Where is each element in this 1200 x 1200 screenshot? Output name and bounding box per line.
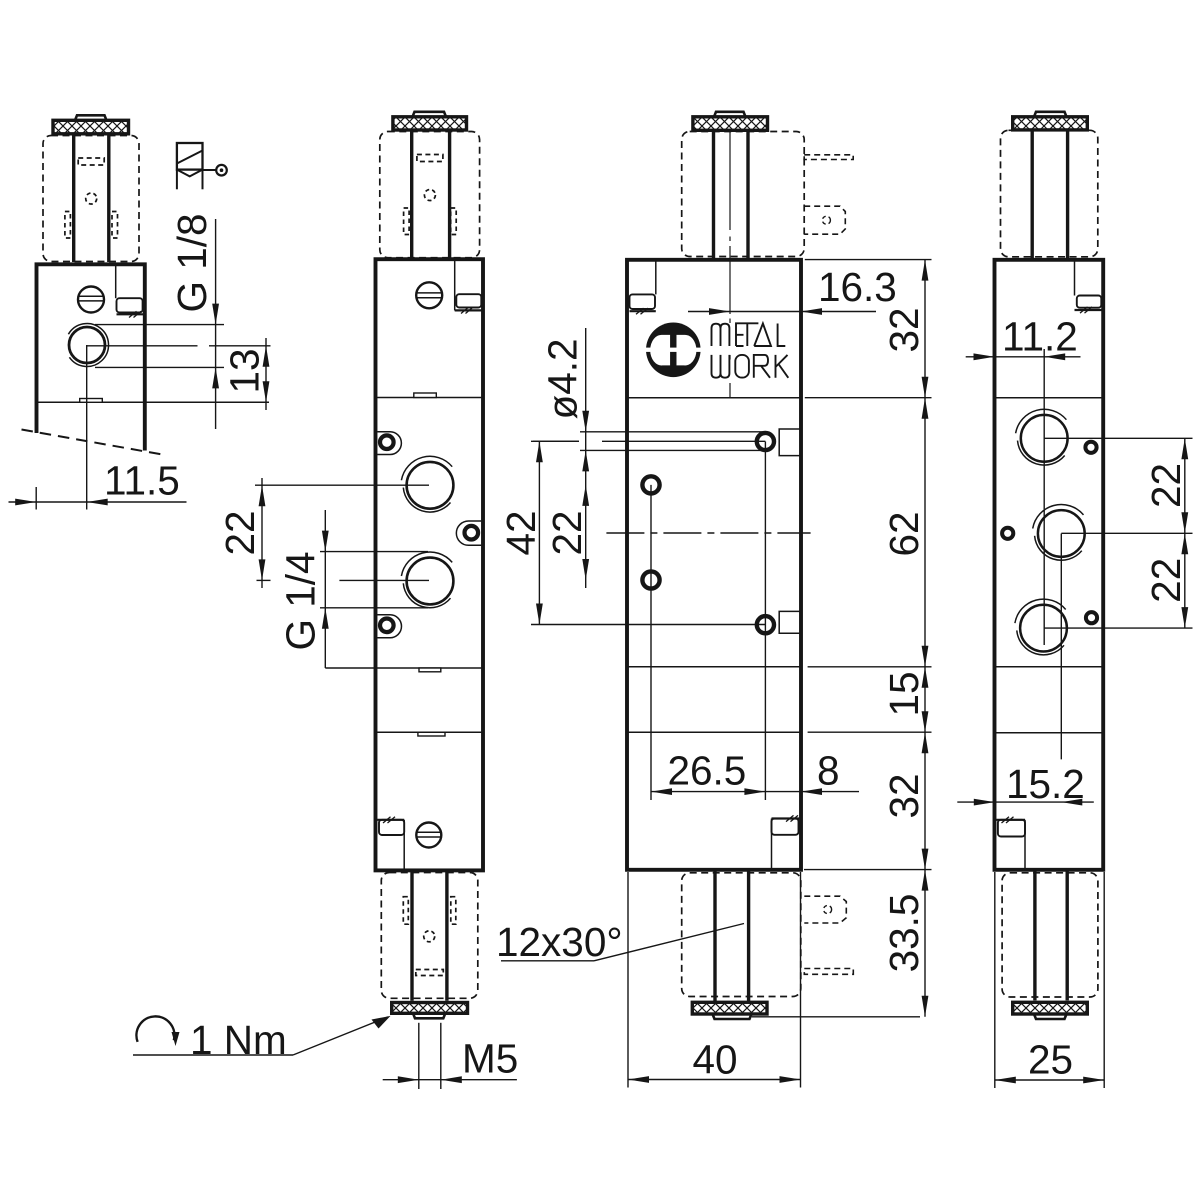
dimension 40 (628, 872, 801, 1088)
svg-text:11.5: 11.5 (104, 458, 180, 504)
view 2 top tab detail (455, 259, 483, 313)
view 3 horizontal centerline (dashed) (606, 532, 810, 534)
view 1 valve body outline (37, 264, 145, 450)
view 1 armature tube walls (74, 134, 109, 262)
view 1 adjustment screw (78, 287, 104, 313)
view 3 top-left tab detail (630, 260, 656, 315)
view 2 solenoid cap bottom (392, 1003, 468, 1019)
svg-text:M5: M5 (462, 1036, 518, 1082)
view 2 adjustment screw top (416, 282, 442, 308)
view 4 bottom-left tab detail (996, 817, 1025, 868)
view 1 body base line with notch (37, 399, 270, 403)
view 1 G1/8 port circle (68, 323, 108, 366)
svg-text:13: 13 (222, 348, 268, 393)
view 3 bottom-right tab detail (772, 815, 800, 868)
dimension 11.2 (966, 314, 1081, 361)
Metal Work logo text METAL (712, 323, 786, 346)
view 3 right extension lines (752, 260, 932, 1017)
view 2 port extension lines (255, 485, 429, 608)
view 4 armature tube walls top (1032, 130, 1067, 260)
view 3 hole tangent lines for dia 4.2 (533, 432, 765, 451)
svg-text:26.5: 26.5 (668, 748, 747, 794)
view 2 stem internals bottom (403, 897, 456, 976)
view 3 section lines (627, 398, 801, 733)
svg-text:ø4.2: ø4.2 (540, 338, 586, 419)
view 4 port bottom (1015, 599, 1067, 655)
pneumatic solenoid valve symbol (177, 143, 227, 189)
svg-text:32: 32 (881, 307, 927, 352)
view 2 mounting hole bottom-left (377, 615, 401, 638)
svg-text:62: 62 (881, 511, 927, 556)
Metal Work logo disc (646, 323, 702, 378)
dimension dia 4.2 and 22 (shared line) (540, 328, 591, 588)
view 4 valve body outline (995, 260, 1104, 870)
dimension 42 (498, 441, 765, 624)
dimension 13 (222, 338, 270, 410)
view 2 section line 1 with notch (376, 393, 484, 398)
torque note 1 Nm with leader (133, 1016, 391, 1063)
view 3 vertical centerline (729, 131, 731, 398)
label 12x30 deg with leader (496, 919, 744, 965)
view 3 valve body outline (627, 260, 801, 870)
svg-text:11.2: 11.2 (1002, 314, 1078, 360)
view 3 armature tube walls top (714, 130, 749, 261)
view 4 small holes (1002, 442, 1097, 624)
view 2 solenoid cap top (393, 112, 467, 130)
view 3 coil body bottom (dashed) (682, 873, 801, 997)
view 4 top-right tab detail (1075, 260, 1104, 313)
view 2 coil body top (dashed) (380, 132, 480, 258)
view 2 mounting hole top-left (377, 432, 401, 455)
svg-text:33.5: 33.5 (881, 894, 927, 973)
svg-text:32: 32 (881, 773, 927, 818)
svg-text:16.3: 16.3 (818, 264, 897, 310)
Metal Work logo text WORK (712, 355, 789, 378)
view 1 section diagonal (dashed) (22, 430, 166, 456)
view 2 G1/4 port 2 (401, 552, 453, 608)
dimension G 1/4 (278, 510, 329, 668)
view 3 solenoid cap top (693, 112, 768, 131)
svg-text:25: 25 (1028, 1036, 1073, 1082)
view 2 bottom-left tab detail (377, 817, 404, 869)
svg-text:G 1/8: G 1/8 (169, 213, 215, 312)
view 1 port centerlines (87, 345, 271, 510)
view 2 mounting hole right (456, 521, 481, 545)
view 4 section lines (995, 398, 1104, 733)
view 4 port middle (1033, 505, 1085, 561)
view 2 section line 2 with notch (325, 668, 483, 672)
view 4 port center vertical line (1044, 349, 1061, 759)
svg-text:15.2: 15.2 (1006, 761, 1085, 807)
view 1 top-right tab detail (116, 264, 145, 317)
view 3 hole center vertical lines (651, 442, 765, 801)
dimension 22 22 view4 (1143, 438, 1189, 628)
view 2 adjustment screw bottom (416, 823, 441, 848)
view 2 valve body outline (376, 259, 484, 870)
dimension 15.2 (957, 761, 1094, 807)
svg-text:40: 40 (693, 1037, 738, 1083)
svg-text:1 Nm: 1 Nm (190, 1017, 287, 1063)
view 4 port extension lines right (1044, 438, 1193, 628)
view 3 solenoid cap bottom (692, 1002, 767, 1019)
dimension 11.5 (9, 458, 187, 510)
dimension 26.5 and 8 (651, 748, 859, 796)
view 4 armature tube walls bottom (1035, 870, 1067, 1001)
view 4 solenoid cap top (1013, 112, 1088, 130)
view 4 coil body top (dashed) (1001, 130, 1098, 256)
view 1 port tangent extension lines (95, 325, 224, 368)
svg-text:15: 15 (881, 671, 927, 716)
view 2 section line 3 with notch (376, 732, 484, 736)
view 1 coil body (dashed) (43, 136, 139, 262)
dimension 16.3 (688, 264, 897, 315)
view 3 connector blade bottom (dashed) (804, 896, 846, 923)
view 4 port top (1016, 409, 1068, 465)
view 2 G1/4 port 1 (401, 456, 453, 512)
dimension 22 view2 (217, 478, 265, 588)
view 2 stem internals top (404, 155, 457, 235)
svg-text:22: 22 (544, 510, 590, 555)
svg-text:22: 22 (1143, 463, 1189, 508)
view 3 connector pin top (dashed) (804, 155, 853, 160)
svg-text:42: 42 (498, 510, 544, 555)
view 3 connector blade top (dashed) (804, 206, 845, 234)
svg-text:8: 8 (817, 748, 840, 794)
svg-text:G 1/4: G 1/4 (278, 551, 324, 650)
dimension M5 (383, 1023, 519, 1089)
view 2 armature tube walls bottom (412, 870, 447, 1000)
view 3 insert squares right edge (779, 429, 801, 633)
view 2 coil body bottom (dashed) (381, 873, 478, 999)
view 2 armature tube walls top (412, 130, 450, 259)
view 3 coil body top (dashed) (682, 132, 805, 257)
view 3 mounting holes (642, 433, 774, 633)
svg-text:22: 22 (217, 510, 263, 555)
svg-text:22: 22 (1143, 558, 1189, 603)
view 1 stem internals (65, 158, 118, 238)
dimension 25 (995, 872, 1104, 1088)
dimension chain 32 62 15 32 33.5 (881, 260, 928, 1017)
view 3 connector pin bottom (dashed) (804, 969, 853, 975)
view 4 coil body bottom (dashed) (1002, 873, 1098, 997)
view 1 solenoid cap (knurled nut) (53, 115, 129, 134)
view 3 armature tube walls bottom (715, 870, 749, 1001)
view 4 solenoid cap bottom (1013, 1002, 1088, 1019)
dimension G 1/8 (169, 213, 219, 429)
